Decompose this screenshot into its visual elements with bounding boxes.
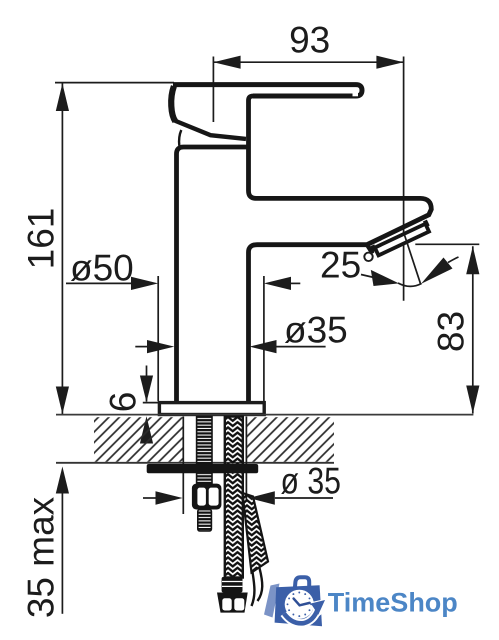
braided supply hose main vertical run <box>225 417 243 578</box>
dimension 93 top: extension line right (also 25-deg reference) <box>403 57 405 301</box>
threaded mounting rod upper part <box>197 417 212 485</box>
svg-text:35 max: 35 max <box>21 496 62 618</box>
base flange <box>159 403 264 415</box>
countertop hatched section right block <box>246 417 334 462</box>
countertop hole edge / extension line left <box>182 417 184 515</box>
dimension 93 top: dimension line with arrows <box>213 56 403 69</box>
dimension 161 left: value label <box>21 208 62 270</box>
mounting nut <box>192 484 222 510</box>
dimension dia35 mid: line, arrows and tails <box>135 340 325 353</box>
svg-text:25°: 25° <box>320 245 376 286</box>
dimension dia35 bottom: line, arrows and tails <box>143 491 333 505</box>
faucet body column left edge and top edge <box>177 147 249 402</box>
aerator tilted bar <box>372 221 429 256</box>
clamping washer plate under countertop <box>147 464 259 473</box>
faucet handle base bottom diagonal edge <box>175 121 246 139</box>
svg-text:TimeShop: TimeShop <box>328 588 458 618</box>
dimension dia35 bottom: value label <box>281 461 342 502</box>
dimension 161 left: top reference line <box>55 82 174 84</box>
dimension 6: value label <box>103 392 144 413</box>
svg-text:161: 161 <box>21 208 62 270</box>
cartridge collar seam curve <box>179 130 181 146</box>
hose end hex fitting <box>217 593 248 613</box>
countertop bottom line <box>56 462 334 464</box>
dimension 83 right: dimension line with arrows <box>466 246 479 413</box>
dimension 25 deg: left arrowhead with leader <box>361 270 399 286</box>
TimeShop logo: bag handle <box>295 577 309 589</box>
svg-text:93: 93 <box>289 20 330 61</box>
dimension 93 top: value label <box>289 20 330 61</box>
countertop hatched section left block <box>94 417 183 462</box>
svg-text:ø 35: ø 35 <box>281 461 342 502</box>
faucet body right edge, spout arm and 25-deg cut outline <box>249 96 432 402</box>
dimension dia50: leader, arrows and tails <box>66 277 300 290</box>
svg-text:ø35: ø35 <box>284 310 348 351</box>
TimeShop logo: light blue bag flap <box>264 584 280 618</box>
svg-text:6: 6 <box>103 392 144 413</box>
dimension dia50: extension line left <box>157 276 159 401</box>
faucet spout bottom step to aerator <box>367 245 373 254</box>
threaded rod end below nut <box>198 510 212 532</box>
dimension 25 deg: value label <box>320 245 376 286</box>
dimension 35 max: value label <box>21 496 62 618</box>
dimension 6: arrows and tail <box>140 366 153 444</box>
hose end collar <box>222 577 243 593</box>
dimension 25 deg: right arrowhead with tail <box>421 257 459 284</box>
countertop hole edge / extension line right <box>245 417 247 501</box>
dimension 93 top: extension line left <box>212 57 214 123</box>
dimension 25 deg: tilted aerator axis line <box>405 235 421 284</box>
dimension 6: extension tick at flange top <box>143 402 160 404</box>
dimension 83 right: top reference line <box>415 243 479 245</box>
dimension 83 right: value label <box>431 311 472 352</box>
dimension dia50: value label <box>70 248 134 289</box>
dimension dia35 mid: value label <box>284 310 348 351</box>
svg-text:83: 83 <box>431 311 472 352</box>
dimension dia50: extension line right <box>263 276 265 401</box>
TimeShop logo: swoosh arrow <box>284 599 329 624</box>
dimension 35 max: dimension line with arrow <box>56 467 69 614</box>
svg-text:ø50: ø50 <box>70 248 134 289</box>
frayed hose strands <box>252 568 263 606</box>
TimeShop logo: dark blue bag body <box>275 585 322 626</box>
TimeShop logo: clock face <box>285 590 314 619</box>
second braided hose branching right <box>243 493 269 573</box>
dimension 25 deg: arc <box>398 283 422 286</box>
TimeShop logo: clock ticks and hands <box>287 592 313 618</box>
TimeShop logo: wordmark <box>328 588 458 618</box>
dimension 161 left: dimension line with arrows <box>56 83 69 414</box>
faucet handle lever bar <box>173 85 362 97</box>
countertop top surface line <box>56 414 473 416</box>
faucet handle base left curved edge <box>171 86 175 121</box>
